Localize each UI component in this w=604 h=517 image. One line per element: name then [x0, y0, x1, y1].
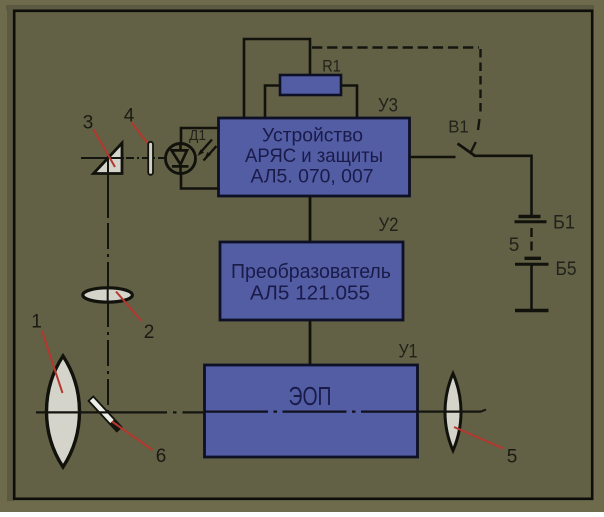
red pointer line to 1 [42, 331, 63, 393]
red pointer line to 5 [454, 427, 504, 449]
mirror 6 [88, 396, 122, 431]
lens 5 (eyepiece) [445, 374, 461, 451]
block U3: Ustroystvo ARYaS [219, 118, 410, 196]
photodiode D1 [166, 144, 196, 174]
optical axis vertical (prism down to mirror) [107, 169, 109, 215]
svg-text:У3: У3 [378, 96, 398, 117]
photodiode D1 wires: bottom wire to U3 [181, 172, 219, 189]
optical axis horizontal (lower, main) [36, 411, 112, 413]
dashed control line vertical to switch blade [479, 49, 481, 114]
svg-text:5: 5 [509, 235, 520, 256]
photodiode D1 wires: top wire to U3 [181, 128, 219, 144]
svg-text:ЭОП: ЭОП [289, 383, 332, 411]
lens 2 [83, 288, 133, 302]
axis end tick [481, 410, 486, 412]
red pointer line to 6 [112, 422, 153, 451]
svg-text:АЛ5. 070, 007: АЛ5. 070, 007 [251, 166, 374, 188]
optical axis horizontal (upper, through prism and filter to D1) [81, 157, 124, 159]
wire: switch to battery B1 [474, 156, 532, 215]
wire: U2 bottom to U1 top [309, 320, 312, 365]
svg-text:Б1: Б1 [553, 212, 575, 234]
svg-text:6: 6 [156, 446, 167, 467]
red pointer line to 4 [132, 123, 148, 144]
filter 4 [148, 142, 153, 175]
prism 3 [94, 143, 123, 174]
lens 1 (objective) [47, 356, 80, 467]
red pointer line to 3 [94, 130, 116, 168]
red pointer line to 2 [116, 292, 142, 322]
axis segment over mirror 6 [96, 411, 122, 413]
light arrows into D1 [198, 140, 217, 161]
svg-text:3: 3 [83, 113, 94, 134]
svg-text:2: 2 [144, 322, 155, 343]
dashed control line last dashes at blade [478, 119, 480, 130]
axis segment over lens 2 [107, 287, 109, 303]
svg-text:У2: У2 [379, 215, 399, 236]
switch V1 blade [458, 144, 475, 156]
dashed wire between B1 and B5 [530, 228, 532, 255]
svg-text:Преобразователь: Преобразователь [231, 260, 391, 283]
wire: R1 right terminal to U3 top [340, 86, 357, 119]
svg-text:У1: У1 [399, 342, 418, 363]
wire: B5 to end terminal [530, 266, 533, 310]
battery B5 [515, 258, 549, 264]
wire: outer loop from U3 top to R1 top [244, 39, 310, 118]
svg-text:5: 5 [507, 447, 518, 468]
svg-text:R1: R1 [322, 58, 341, 76]
battery B1 [515, 217, 547, 222]
svg-text:АЛ5 121.055: АЛ5 121.055 [250, 282, 370, 305]
svg-text:1: 1 [31, 312, 42, 333]
svg-text:Б5: Б5 [556, 258, 577, 280]
wire: U3 bottom to U2 top [309, 196, 312, 242]
axis segment over lens 5 [443, 411, 463, 413]
svg-text:Устройство: Устройство [262, 125, 363, 147]
block U1: EOP [205, 365, 418, 457]
svg-text:В1: В1 [448, 117, 469, 137]
svg-text:АРЯС и защиты: АРЯС и защиты [245, 145, 383, 167]
dashed control line from node at (310,47.5) to switch V1 [312, 46, 479, 48]
frame shadow top [6, 5, 594, 10]
axis segment over lens 1 [45, 411, 82, 413]
resistor R1 [280, 75, 341, 95]
end terminal bar [515, 309, 549, 313]
wire: R1 left terminal to U3 top [265, 86, 281, 119]
svg-text:Д1: Д1 [189, 128, 206, 144]
wire: U3 right to switch V1 [409, 156, 456, 159]
frame shadow left [7, 5, 14, 501]
axis segments over prism 3 [96, 157, 124, 159]
block U2: Preobrazovatel [220, 242, 403, 320]
